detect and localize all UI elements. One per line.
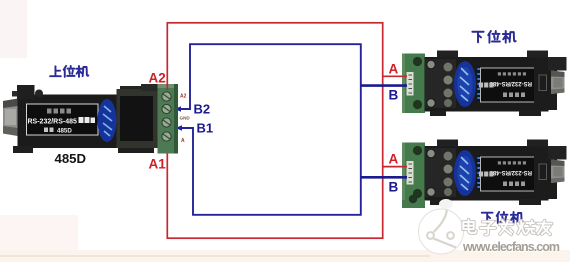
title 下位机 top (slave computer) [472,31,515,43]
arrowhead B2 stub [175,106,182,112]
watermark text 电子发烧友 (outlined) [463,220,551,235]
converter body (black) [18,95,161,149]
svg-text:B: B [389,180,399,195]
wire B bottom (blue) [361,176,407,179]
red bus rectangle (A network) [167,23,382,238]
green terminal block [158,84,179,154]
PCB section with chip [117,89,159,148]
svg-text:B: B [389,88,399,103]
red bus entering terminal block top [166,84,168,90]
svg-text:RS-232/RS-485: RS-232/RS-485 [489,80,532,86]
faint pink patch bottom-left [0,215,78,254]
terminal screw 3 [162,118,171,127]
vertical blue text strip [477,67,481,102]
label line3: 型号 485D [44,128,54,133]
arrowhead B1 stub [176,125,183,131]
DB9 male connector (right) [551,71,565,95]
faint pink band top-left [0,0,27,58]
svg-text:485D: 485D [57,128,72,135]
bottom green block extension [402,200,425,208]
blue oval sticker [454,61,476,107]
svg-text:A: A [181,138,185,144]
product label (rotated 180) [481,68,535,102]
wire A bottom (red) [382,166,407,168]
title 上位机 (host computer) [50,66,88,77]
faint tan line bottom [0,255,430,257]
svg-text:A2: A2 [149,71,166,86]
svg-text:B2: B2 [194,102,211,117]
watermark logo circle [419,209,464,254]
product label (white border) [27,104,99,135]
terminal screw 4 [162,132,171,141]
svg-text:GND: GND [180,116,191,121]
terminal screw 1 [162,92,171,101]
terminal screws dark [413,57,422,66]
title 下位机 bottom (slave computer) [482,212,523,223]
label line1: 波士电子 (tiny blocks) [47,109,71,114]
wire B top (blue) [361,84,407,87]
svg-text:485D: 485D [55,151,87,166]
svg-text:www.elecfans.com: www.elecfans.com [462,240,560,254]
clamp nut column [444,63,453,72]
svg-text:A2: A2 [180,94,187,100]
corner screws [427,60,435,68]
svg-text:RS-232/RS-485: RS-232/RS-485 [28,119,78,126]
green terminal block [402,54,425,114]
svg-text:A1: A1 [149,157,167,172]
blue oval sticker [98,99,117,142]
wire A top (red) [382,75,407,77]
svg-text:A: A [389,62,399,77]
blue bus path (B network, broken at left edge) [176,44,361,215]
DB9 female connector (left) [3,99,18,137]
cable clamp section [425,59,456,108]
svg-text:A: A [389,152,399,167]
terminal screw 2 [162,104,171,113]
sticker square on body [539,75,547,91]
right body section [534,58,557,110]
faint cream band bottom [0,250,570,262]
black body [425,57,549,112]
white pin label strip [407,72,414,96]
svg-text:B1: B1 [197,121,214,136]
white reflection sticker on bottom device [439,199,453,209]
